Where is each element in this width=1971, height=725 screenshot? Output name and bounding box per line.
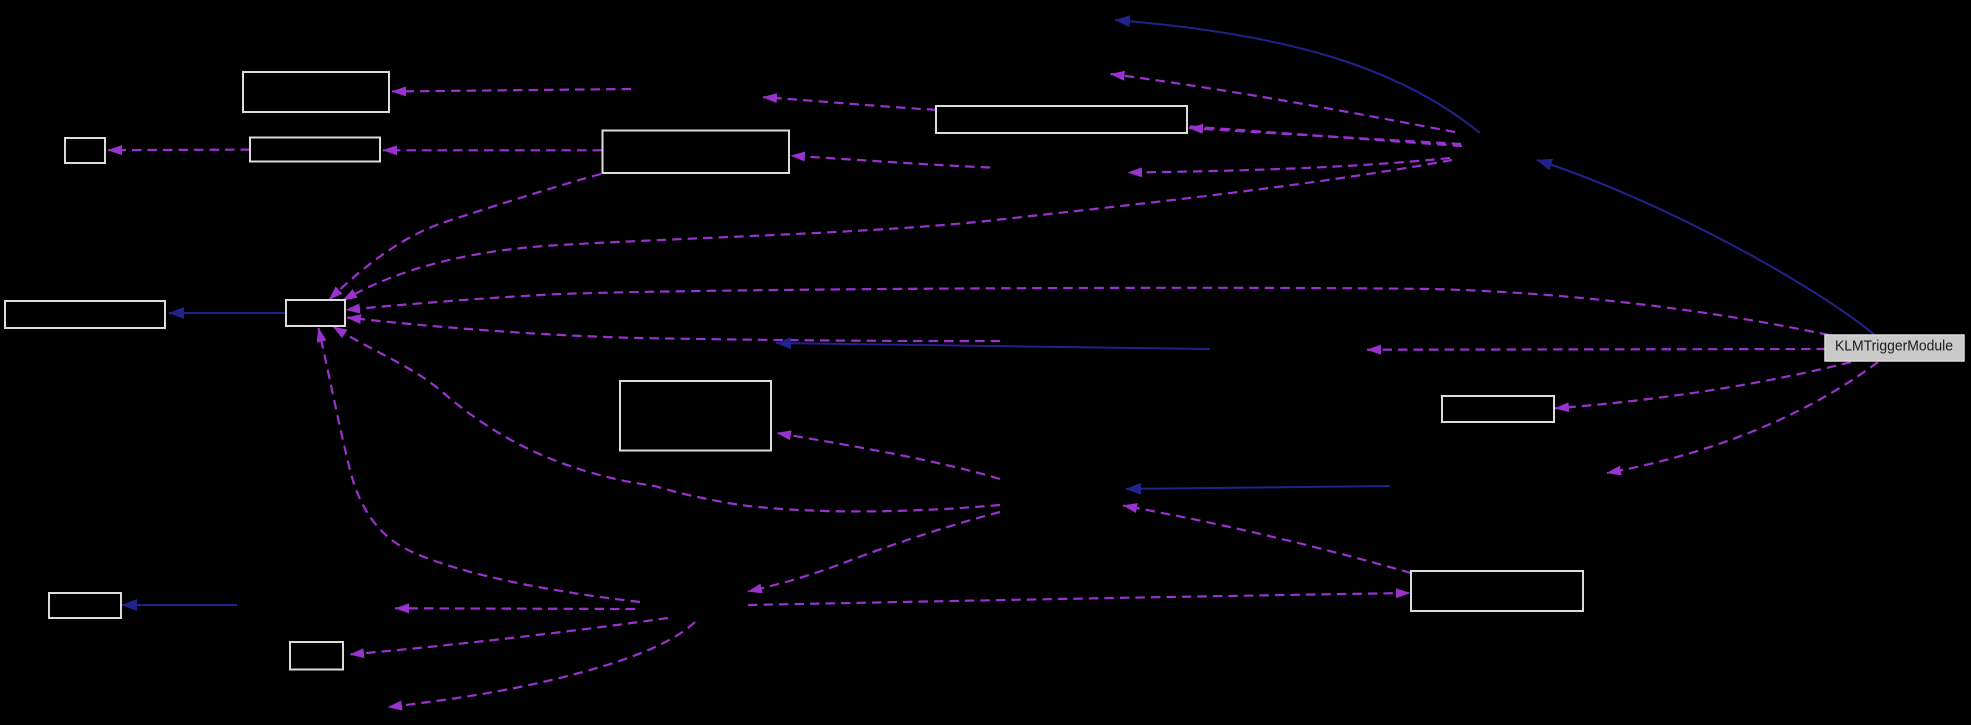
- svg-text:KLMTriggerModule: KLMTriggerModule: [1835, 338, 1953, 355]
